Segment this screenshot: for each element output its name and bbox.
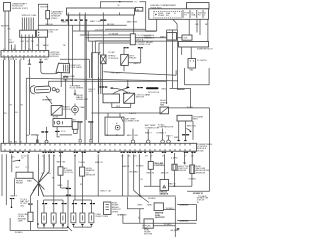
svg-text:MED Y: MED Y [11,196,18,198]
svg-text:SPROUT LINE: SPROUT LINE [22,15,37,17]
svg-text:GY: GY [9,105,13,107]
svg-text:W B: W B [116,106,121,108]
svg-text:CLUTCH: CLUTCH [64,172,73,174]
svg-text:SENSOR: SENSOR [177,170,187,172]
svg-text:PUMP: PUMP [142,228,149,230]
svg-text:PK/Y BLU: PK/Y BLU [111,73,121,75]
svg-text:GN: GN [89,91,93,93]
svg-text:W Y: W Y [16,167,21,169]
svg-text:RELAY: RELAY [129,57,137,60]
svg-text:MED Y: MED Y [101,191,108,193]
svg-text:RD/WH: RD/WH [1,25,9,27]
svg-text:MED Y: MED Y [145,132,152,134]
svg-text:CONNECTOR: CONNECTOR [125,121,139,123]
svg-text:LG: LG [15,112,18,114]
svg-text:RD/GN: RD/GN [107,24,114,26]
svg-text:GN: GN [21,41,25,43]
svg-text:TO SMTH: TO SMTH [197,60,207,62]
svg-text:STARTER MOTOR: STARTER MOTOR [197,47,213,50]
svg-text:OPEN: OPEN [112,211,119,213]
svg-text:SHUTOFF: SHUTOFF [155,217,166,219]
svg-text:TN: TN [20,105,23,107]
svg-text:MED W: MED W [161,172,169,174]
svg-text:MED GN: MED GN [57,161,66,163]
svg-text:CAM: CAM [80,106,85,109]
svg-text:CONTROL: CONTROL [154,165,165,167]
svg-text:PLUG WIRES: PLUG WIRES [70,88,84,90]
svg-text:BK MED: BK MED [171,230,180,232]
svg-text:W MED: W MED [15,232,23,234]
svg-text:WH: WH [47,173,51,175]
svg-text:SUPPR.: SUPPR. [63,109,72,111]
svg-text:4 BLK/W: 4 BLK/W [95,30,105,32]
svg-text:MED: MED [162,88,167,90]
svg-text:4 BK/WH: 4 BK/WH [180,204,189,207]
svg-text:TO4 W: TO4 W [78,162,86,164]
svg-text:PUMP: PUMP [158,15,165,17]
svg-text:BK MED: BK MED [130,172,139,174]
svg-text:GN: GN [44,59,48,61]
svg-text:TO A/C: TO A/C [108,51,116,54]
svg-text:MED Y GN: MED Y GN [90,21,101,23]
svg-text:MED Y: MED Y [134,63,141,65]
svg-text:RD/GN: RD/GN [46,24,53,26]
svg-text:MED Y BK: MED Y BK [127,22,138,24]
svg-text:COMPRESSOR: COMPRESSOR [158,127,174,129]
svg-text:60A: 60A [192,14,196,17]
svg-text:4 BK/WH: 4 BK/WH [180,220,189,223]
svg-text:W MED W: W MED W [193,193,203,195]
svg-text:COIL: COIL [48,32,54,34]
svg-text:MED: MED [147,204,152,206]
svg-text:MED: MED [138,204,143,206]
svg-text:MED: MED [58,185,63,187]
svg-text:W MED Y: W MED Y [157,132,167,134]
svg-text:INJECTORS: INJECTORS [96,216,109,218]
svg-text:TO BLWR: TO BLWR [109,34,119,36]
svg-text:TN: TN [31,41,34,43]
svg-text:BK/YW: BK/YW [145,38,153,40]
svg-text:W WHITE: W WHITE [43,99,53,101]
svg-text:W MED: W MED [166,208,174,210]
svg-text:CONTROL: CONTROL [108,58,119,60]
svg-text:MED Y: MED Y [62,22,69,24]
svg-text:C Y: C Y [26,167,30,169]
svg-text:TO: TO [134,2,137,4]
svg-text:MED W: MED W [147,172,155,174]
svg-text:GY: GY [39,59,43,61]
svg-text:MOTOR: MOTOR [144,234,153,236]
svg-text:RD/GN: RD/GN [41,6,48,8]
svg-text:MED Y GN: MED Y GN [127,135,138,137]
svg-text:4 ALTN: 4 ALTN [129,112,137,115]
svg-text:SWITCH: SWITCH [136,97,145,99]
svg-text:REG: REG [193,119,198,121]
svg-text:GY: GY [26,41,30,43]
svg-text:SENSOR: SENSOR [196,172,206,174]
svg-text:W MED: W MED [189,178,197,180]
svg-text:TACH LINE: TACH LINE [64,75,76,78]
svg-text:MED Y: MED Y [166,135,173,137]
svg-text:MED: MED [27,180,32,182]
svg-text:SOL: SOL [184,38,189,40]
svg-text:NOISE CAP: NOISE CAP [76,98,88,101]
svg-text:MED: MED [63,80,68,82]
svg-text:MED W: MED W [95,162,103,164]
svg-text:(CMP): (CMP) [51,18,58,20]
svg-text:SENSOR: SENSOR [86,175,96,177]
svg-text:RELAY: RELAY [16,182,24,185]
svg-text:CONNECTOR: CONNECTOR [136,44,150,46]
svg-text:MED: MED [174,137,179,139]
svg-text:MED 4: MED 4 [123,166,130,168]
svg-text:MED W: MED W [168,184,176,186]
svg-text:BAT: BAT [190,69,195,72]
svg-text:BRKT: BRKT [9,42,15,44]
svg-text:(PCM): (PCM) [197,150,204,152]
svg-text:LINE: LINE [18,221,23,223]
svg-text:W MED: W MED [148,198,156,200]
svg-text:SENSOR: SENSOR [160,194,169,196]
svg-text:MED GN: MED GN [187,125,196,127]
svg-text:MODULE: MODULE [50,56,60,58]
svg-text:RD: RD [205,24,209,26]
svg-text:TACH: TACH [43,44,49,47]
svg-text:SENSOR (CKP): SENSOR (CKP) [12,8,28,10]
svg-text:COIL PACK: COIL PACK [71,66,83,69]
svg-text:W MED: W MED [136,165,144,167]
svg-text:W GN: W GN [187,107,193,109]
svg-text:FAN: FAN [160,104,165,107]
svg-text:W MED: W MED [164,224,172,226]
svg-text:TO X: TO X [61,131,67,133]
svg-text:GN: GN [20,205,24,207]
